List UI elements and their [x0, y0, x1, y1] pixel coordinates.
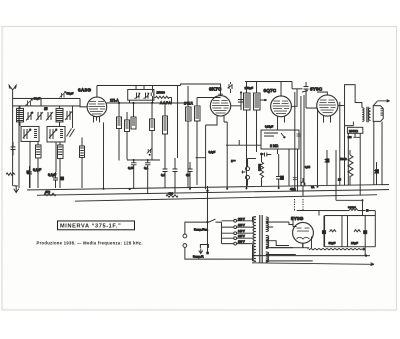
svg-text:1ªM.F.: 1ªM.F.: [184, 101, 193, 105]
wire switch col: [72, 106, 74, 128]
svg-text:30pF: 30pF: [34, 96, 41, 100]
capacitor C couple V6: [302, 82, 309, 95]
wire field down: [344, 126, 360, 186]
svg-text:220 V: 220 V: [238, 217, 245, 221]
mains plug terminal 2: [183, 244, 187, 248]
capacitor C 0.1uF mid: [48, 172, 64, 188]
wire field coil down2: [359, 137, 361, 195]
tap branch 160: [221, 226, 252, 228]
speaker frame: [373, 106, 383, 122]
wire mains 1: [185, 222, 208, 234]
capacitor C coupling K7: [228, 82, 233, 93]
resistor R vol zig: [260, 154, 264, 187]
tap plug 220: [234, 219, 237, 222]
fuse arrow down: [199, 248, 203, 253]
capacitor C det: [262, 153, 272, 157]
svg-text:110 V: 110 V: [238, 240, 245, 244]
svg-text:Produzione 1938. — Media frequ: Produzione 1938. — Media frequenza: 128 …: [36, 240, 142, 245]
svg-text:campo: campo: [348, 206, 356, 209]
capacitor C field blob: [347, 136, 351, 139]
svg-text:160 V: 160 V: [238, 223, 245, 227]
node choke sq: [366, 209, 369, 212]
wire rows down: [134, 170, 148, 193]
svg-text:0,1: 0,1: [161, 173, 165, 177]
node bus drop dot: [206, 190, 208, 192]
capacitor C-ant trimmer: [26, 99, 33, 106]
svg-text:50pF: 50pF: [67, 91, 74, 95]
svg-text:250pF: 250pF: [245, 86, 254, 90]
wire primary top: [252, 217, 255, 261]
node trimmer dot: [149, 154, 151, 156]
IF transformer T2 winding b: [254, 93, 261, 110]
coil L2: [56, 106, 63, 126]
svg-text:6A8G: 6A8G: [78, 87, 91, 92]
tap branch 220: [221, 220, 252, 222]
svg-text:32μF: 32μF: [328, 241, 335, 245]
box tuning gang 1: [21, 126, 39, 141]
capacitor left small: [11, 142, 16, 156]
resistor R bus2 zig: [166, 195, 178, 198]
wire 6Q7C to V6: [292, 88, 303, 90]
node dots row160: [133, 159, 135, 161]
field coil box: [347, 127, 362, 133]
filter cap 1: [322, 216, 336, 247]
tap feed vertical: [220, 222, 222, 244]
tap plug 110: [234, 242, 237, 245]
resistor R1 50000: [117, 103, 122, 161]
tap branch 110: [221, 243, 252, 245]
capacitor C out right: [374, 162, 379, 185]
grid cap 6K7C: [218, 93, 223, 95]
trimmer CT4: [65, 111, 72, 120]
arrow speaker: [373, 100, 389, 106]
jack J1: [241, 159, 249, 180]
mains plug terminal 1: [183, 234, 187, 238]
svg-text:470: 470: [45, 190, 50, 194]
tap plug 140: [234, 232, 237, 235]
wire antenna down: [12, 98, 14, 185]
wire avc col1: [294, 92, 296, 190]
svg-text:25000: 25000: [157, 90, 166, 94]
capacitor C avc2: [293, 178, 297, 180]
transformer core: [260, 215, 262, 263]
node dot plate2: [118, 102, 120, 104]
wire coil L4 stubs: [59, 142, 61, 188]
transformer primary: [253, 217, 256, 262]
wire V6 screen: [338, 105, 345, 107]
node dot T2g: [264, 99, 266, 101]
svg-text:2 MΩ: 2 MΩ: [270, 144, 279, 148]
capacitor Ck3: [187, 162, 192, 188]
wire vol right col: [289, 149, 298, 191]
svg-text:0,1μF: 0,1μF: [33, 168, 41, 172]
capacitor C 0.1uF left: [27, 166, 41, 188]
svg-text:125 V: 125 V: [238, 234, 245, 238]
svg-text:0,05: 0,05: [305, 165, 311, 169]
capacitor C osc pad: [128, 160, 137, 170]
resistor R osc zig: [155, 96, 172, 103]
wire tube cathode down: [102, 122, 104, 187]
coil L4: [58, 145, 64, 159]
wire row 160: [127, 159, 160, 161]
svg-text:40Ω: 40Ω: [290, 187, 296, 191]
node bus dots: [102, 186, 363, 201]
coil L5: [80, 146, 85, 158]
filter cap 2: [351, 216, 367, 247]
wire T1 bottoms: [188, 121, 197, 188]
switch S1 wave band: [67, 128, 75, 137]
dial lamp: [301, 178, 305, 196]
tube 6Q7C: [271, 82, 292, 123]
wire T2 top: [247, 82, 257, 94]
wire gang2 down: [55, 142, 57, 172]
tube 6A8G: [87, 85, 107, 122]
wire gang1 down: [29, 141, 31, 188]
resistor R4 10000: [150, 103, 155, 161]
wire bottom long: [252, 255, 370, 257]
IF transformer T1 winding a: [186, 107, 192, 121]
wire 6Q7C plate right: [291, 82, 297, 107]
wire box stubs: [130, 86, 145, 103]
tap branch 125: [221, 237, 252, 239]
coil L3: [36, 145, 42, 158]
wire V6 grid: [306, 95, 317, 108]
wire coil L3 stubs: [37, 142, 39, 188]
wire T2 bottoms: [246, 110, 256, 188]
bus line 1: [27, 184, 389, 190]
wire field returns: [319, 211, 348, 247]
tube 6V6C: [317, 92, 338, 123]
output transformer core: [367, 107, 368, 122]
wire bottom arrow line: [252, 263, 374, 266]
wire K7 plate: [231, 100, 241, 106]
svg-text:16μF: 16μF: [351, 241, 358, 245]
svg-text:0,1μF: 0,1μF: [209, 150, 216, 154]
capacitor C T2 tune: [238, 92, 244, 110]
ground main left: [13, 186, 19, 193]
wire left col2: [18, 106, 20, 188]
capacitor C pad2: [144, 160, 151, 170]
wire osc drops: [177, 85, 179, 157]
capacitor C avc1: [297, 134, 301, 136]
fuse bracket: [200, 245, 208, 249]
node dot bottom: [365, 254, 367, 256]
svg-text:0,01μF: 0,01μF: [265, 125, 274, 129]
output transformer OT outline: [345, 85, 362, 126]
wire mains 2: [185, 247, 253, 259]
tube 6K7C: [210, 96, 230, 122]
svg-text:5000: 5000: [340, 157, 347, 161]
wire sec taps: [266, 222, 313, 261]
wire 6K7C cathode down: [195, 122, 227, 189]
svg-text:5amp./F.: 5amp./F.: [193, 254, 204, 258]
wire filter bottom left: [271, 247, 309, 249]
trimmer CT1: [26, 112, 33, 121]
wire 6Q7C bottom down: [277, 123, 279, 131]
wire right col3: [339, 102, 341, 185]
svg-text:2000Ω: 2000Ω: [349, 129, 359, 133]
resistor R out zig: [348, 150, 353, 185]
IF transformer T2 winding a: [244, 93, 251, 110]
box tuning gang 2: [47, 126, 65, 142]
svg-text:5amp./Fus.: 5amp./Fus.: [194, 227, 208, 231]
wire heater wavy: [308, 248, 361, 250]
wire T2 sec to 6Q7 grid: [260, 99, 267, 101]
node dot plate: [132, 102, 134, 104]
wire vol down: [226, 140, 278, 154]
wire plate row: [107, 102, 186, 104]
svg-text:0,1: 0,1: [144, 166, 149, 170]
node dots row160b: [147, 159, 149, 161]
svg-text:271-A: 271-A: [110, 98, 119, 102]
node K7: [240, 91, 242, 93]
trimmer CT2: [36, 112, 43, 121]
wire front-end top: [13, 105, 80, 107]
resistor R bus zig: [44, 193, 56, 196]
wire spk down: [374, 122, 382, 186]
trimmer mid: [147, 148, 153, 154]
svg-text:15: 15: [44, 107, 48, 111]
bus line 3: [75, 195, 377, 202]
volume control box: [261, 130, 299, 149]
trimmer CT-ant2: [60, 91, 67, 97]
node det dot: [260, 153, 263, 156]
filter box: [325, 216, 376, 247]
arrow heater: [361, 248, 366, 250]
node osc junction: [151, 102, 153, 104]
wire jack top: [248, 158, 257, 160]
node osc top: [97, 84, 181, 86]
capacitor osc3: [151, 86, 154, 103]
MINERVA label box: [57, 221, 134, 230]
svg-text:50000: 50000: [257, 164, 260, 172]
node switch dot: [206, 221, 208, 223]
oscillator padder box: [128, 89, 154, 100]
resistor R5 2M: [163, 103, 168, 168]
wire osc box right step: [181, 84, 221, 96]
switch S mains: [209, 219, 222, 222]
wire grid left 6A8G: [80, 98, 87, 106]
transformer secondary: [266, 217, 269, 262]
choke field: [349, 209, 366, 211]
tap plug 160: [234, 226, 237, 229]
resistor R2 25000: [125, 112, 130, 160]
wire right col1: [303, 95, 305, 185]
IF transformer T1 winding b: [195, 106, 201, 121]
svg-text:6Y6C: 6Y6C: [310, 87, 323, 92]
heater leads dotted: [294, 199, 303, 209]
wire cap2 gnd: [364, 247, 366, 256]
speaker voice coil: [369, 108, 371, 120]
capacitor C det2: [276, 154, 284, 188]
capacitor Ck1: [162, 160, 167, 188]
node fuse dot: [206, 252, 209, 255]
trimmer osc1: [135, 92, 141, 98]
svg-text:A.A.P.A.: A.A.P.A.: [160, 101, 172, 105]
wire step right: [336, 150, 363, 216]
svg-text:0,1μF: 0,1μF: [48, 173, 56, 177]
wire T2 top bus: [245, 81, 292, 83]
antenna: [9, 84, 17, 98]
capacitor Ck2: [172, 158, 177, 193]
trimmer osc2: [144, 92, 150, 98]
tap branch 140: [221, 232, 252, 234]
capacitor C tone: [324, 150, 329, 185]
tube 5Y3G: [293, 219, 314, 248]
output transformer OT winding: [362, 108, 364, 122]
wire T1 tops: [188, 86, 221, 107]
svg-text:6Q7C: 6Q7C: [264, 88, 277, 93]
trimmer CT3: [46, 112, 53, 121]
wire jack bottom: [246, 179, 248, 185]
resistor R ant zig: [6, 173, 15, 176]
svg-text:6K7C: 6K7C: [209, 87, 222, 92]
svg-text:140 V: 140 V: [238, 229, 245, 233]
wire right col2: [316, 108, 318, 185]
wire avc col2: [300, 96, 302, 186]
wire coil L5 stubs: [81, 137, 83, 188]
coil L1 antenna: [17, 106, 24, 126]
svg-text:400: 400: [168, 191, 173, 195]
wire rect cathode: [303, 237, 312, 249]
wire heater end: [369, 211, 376, 247]
wire heater row: [294, 209, 349, 211]
resistor R3: [131, 103, 136, 129]
bus line 2: [37, 189, 389, 195]
svg-text:0,05: 0,05: [128, 166, 134, 170]
wire antenna lead-in: [13, 98, 80, 106]
tap plug 125: [234, 237, 237, 240]
wire bus to switch node: [206, 186, 208, 253]
svg-text:MINERVA “375-1F.”: MINERVA “375-1F.”: [60, 224, 121, 230]
